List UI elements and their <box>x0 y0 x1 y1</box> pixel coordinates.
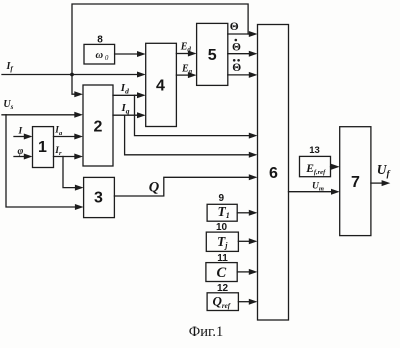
svg-text:Iq: Iq <box>121 102 130 115</box>
arrowhead into block 7 input Efref <box>331 164 340 170</box>
wire Ed block4 to block5 <box>176 53 189 55</box>
svg-text:4: 4 <box>156 78 165 95</box>
wire Id branch to block 6 <box>135 95 251 135</box>
wire Iq block2 to block4 <box>113 114 138 116</box>
block 6 <box>258 25 289 321</box>
wire Uf output <box>371 182 383 184</box>
arrowhead into block 2 input feedback <box>74 91 83 97</box>
arrowhead into block 6 input Iq <box>249 152 258 158</box>
arrowhead into block 6 input Q <box>249 174 258 180</box>
arrowhead into block 2 input Ia <box>74 134 83 140</box>
svg-text:11: 11 <box>217 253 228 264</box>
svg-text:φ: φ <box>18 146 24 157</box>
wire Um block6 to block7 <box>289 191 333 193</box>
svg-text:8: 8 <box>97 34 103 45</box>
block 9 <box>207 204 237 221</box>
svg-text:Θ: Θ <box>232 62 241 74</box>
svg-text:Eq: Eq <box>181 63 193 75</box>
svg-text:7: 7 <box>351 174 360 191</box>
wire Theta block5 to block6 <box>228 33 250 35</box>
wire Us input to block 2 <box>2 114 75 116</box>
arrowhead into block 6 input C <box>249 269 258 275</box>
block 3 <box>84 177 115 217</box>
wire C block11 to block6 <box>237 271 250 273</box>
arrowhead into block 1 input phi <box>24 154 33 160</box>
block 4 <box>146 43 177 126</box>
wire Eq block4 to block5 <box>176 74 189 76</box>
svg-text:12: 12 <box>217 283 229 294</box>
svg-text:Θ: Θ <box>230 21 239 33</box>
arrowhead into block 4 input If <box>137 72 146 78</box>
svg-text:If: If <box>6 61 14 73</box>
block 5 <box>197 23 228 85</box>
svg-text:Ed: Ed <box>180 41 192 53</box>
arrowhead into block 7 input Um <box>331 189 340 195</box>
arrowhead into block 2 input Ir <box>74 154 83 160</box>
wire phi input to block 1 <box>14 156 25 158</box>
svg-text:C: C <box>217 265 227 281</box>
svg-text:10: 10 <box>216 222 228 233</box>
svg-text:9: 9 <box>219 193 225 204</box>
arrowhead into block 6 input Tj <box>249 238 258 244</box>
svg-text:I: I <box>18 127 23 137</box>
wire Theta feedback to block 2 <box>72 4 248 94</box>
wire Tj block10 to block6 <box>238 240 250 242</box>
svg-text:Фиг.1: Фиг.1 <box>189 324 223 340</box>
wire Iq branch to block 6 <box>125 115 250 155</box>
wire Theta-ddot block5 to block6 <box>228 74 250 76</box>
arrowhead into block 6 input Theta-ddot <box>249 72 258 78</box>
arrowhead into block 1 input I <box>24 134 33 140</box>
arrowhead into block 6 input Id <box>249 133 258 139</box>
wire Ir branch to block 3 <box>63 157 76 188</box>
svg-text:5: 5 <box>208 47 217 64</box>
arrowhead into block 4 input Iq <box>137 112 146 118</box>
svg-text:Id: Id <box>120 82 129 95</box>
wire omega0 block8 to block4 <box>115 53 138 55</box>
block 2 <box>83 85 113 166</box>
wire I input to block 1 <box>14 136 25 138</box>
wire Theta-dot block5 to block6 <box>228 53 250 55</box>
arrowhead into block 6 input Theta-dot <box>249 51 258 57</box>
wire Us branch to block 3 <box>6 115 76 207</box>
block 12 <box>207 293 238 311</box>
arrowhead into block 4 input omega0 <box>137 51 146 57</box>
arrowhead into block 6 input T1 <box>249 210 258 216</box>
svg-text:6: 6 <box>269 165 278 182</box>
svg-text:Q: Q <box>149 180 160 196</box>
wire Efref block13 to block7 <box>331 166 333 168</box>
arrowhead into block 2 input Us <box>74 112 83 118</box>
wire Id block2 to block4 <box>113 94 138 96</box>
svg-text:Um: Um <box>312 182 324 193</box>
wire T1 block9 to block6 <box>237 212 250 214</box>
svg-text:Ir: Ir <box>54 146 62 157</box>
svg-text:Θ: Θ <box>232 42 241 54</box>
arrowhead into block 3 input 2 <box>75 204 84 210</box>
arrowhead into block 5 input Eq <box>188 72 197 78</box>
arrowhead into block 3 input 1 <box>75 185 84 191</box>
junction dot If feedback crossing <box>70 73 74 77</box>
wire Ia block1 to block2 <box>54 136 76 138</box>
block 11 <box>206 263 237 282</box>
arrowhead into block 4 input Id <box>137 92 146 98</box>
svg-text:2: 2 <box>94 119 103 136</box>
wire If input to block 4 <box>2 74 138 76</box>
svg-text:Us: Us <box>3 99 13 111</box>
svg-text:3: 3 <box>94 190 103 207</box>
wire Q block3 to block6 <box>114 177 250 196</box>
arrowhead into block 6 input Qref <box>249 299 258 305</box>
block 10 <box>206 232 238 251</box>
block 1 <box>33 127 54 168</box>
svg-text:13: 13 <box>309 145 320 156</box>
wire Ir block1 to block2 <box>54 156 76 158</box>
arrowhead into block 5 input Ed <box>188 51 197 57</box>
block 7 <box>340 127 371 236</box>
wire Qref block12 to block6 <box>238 301 250 303</box>
svg-text:Uf: Uf <box>377 162 391 180</box>
svg-text:Ia: Ia <box>54 126 63 137</box>
arrowhead into block 6 input Theta <box>249 31 258 37</box>
block 13 <box>300 156 331 176</box>
block 8 <box>84 44 115 64</box>
svg-text:1: 1 <box>38 139 47 156</box>
arrowhead output Uf <box>382 180 391 186</box>
